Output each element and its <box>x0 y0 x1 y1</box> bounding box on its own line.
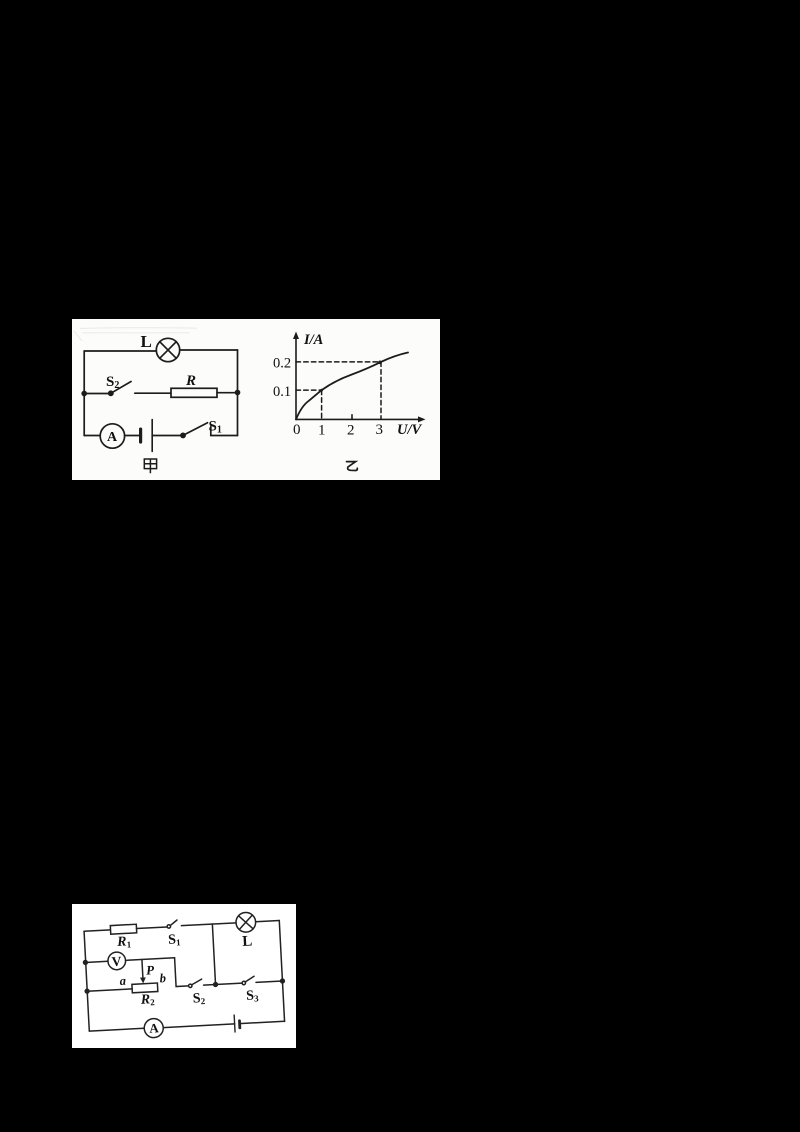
graph axes <box>293 332 426 423</box>
wire left vertical <box>83 351 85 436</box>
svg-text:U/V: U/V <box>397 422 423 438</box>
svg-text:S1: S1 <box>168 932 182 948</box>
node right junction <box>236 391 240 395</box>
wire top left <box>84 350 156 352</box>
node third row left <box>85 989 89 993</box>
label 乙 <box>347 462 358 471</box>
wire middle left <box>84 393 110 395</box>
svg-text:L: L <box>242 934 253 951</box>
lamp L <box>156 338 179 361</box>
switch S3 <box>242 976 255 985</box>
wire S3 to right <box>256 981 282 982</box>
x arrowhead <box>418 416 426 422</box>
node right <box>280 979 284 983</box>
wire voltmeter right <box>126 958 175 961</box>
svg-text:1: 1 <box>318 423 326 439</box>
svg-text:3: 3 <box>376 422 384 438</box>
curve I-U <box>296 353 408 420</box>
svg-text:R1: R1 <box>116 934 132 950</box>
svg-text:0.2: 0.2 <box>273 356 291 372</box>
svg-text:a: a <box>119 974 126 988</box>
voltmeter V <box>108 952 126 970</box>
wire middle gap-right <box>135 392 171 394</box>
svg-text:0: 0 <box>293 422 301 438</box>
svg-text:P: P <box>146 962 156 977</box>
wire battery to switch <box>152 435 183 437</box>
resistor R2 <box>132 983 158 993</box>
node curve dot U=3 <box>378 361 382 365</box>
dashed vertical U=1 <box>321 390 323 419</box>
tick 2 <box>351 415 353 420</box>
wire left vertical <box>84 931 89 1031</box>
svg-text:A: A <box>149 1020 160 1036</box>
switch S1 <box>167 920 178 928</box>
svg-text:0.1: 0.1 <box>273 384 291 400</box>
wire down to S2 <box>175 957 189 986</box>
lamp L <box>236 912 257 933</box>
wire right vertical <box>237 350 239 436</box>
switch S2 <box>109 382 131 396</box>
scan smudge <box>74 328 197 341</box>
battery cell <box>234 1015 240 1032</box>
potentiometer wiper P <box>139 959 146 983</box>
wire node to S3 <box>216 983 243 984</box>
svg-text:R2: R2 <box>139 992 155 1008</box>
wire right vertical <box>279 921 284 1022</box>
svg-text:I/A: I/A <box>303 332 324 348</box>
svg-text:L: L <box>141 332 152 351</box>
node lamp branch bottom <box>214 982 218 986</box>
node curve dot U=1 <box>320 389 323 392</box>
switch S1 <box>181 423 211 438</box>
svg-text:S3: S3 <box>246 988 260 1004</box>
dashed 0.2 <box>296 361 381 363</box>
wire lamp branch vertical <box>212 924 215 984</box>
wire switch to right corner <box>211 435 238 437</box>
wire middle to right <box>217 392 238 394</box>
wire S1 to lamp <box>181 923 236 926</box>
svg-text:2: 2 <box>347 423 355 439</box>
switch S2 <box>188 979 202 987</box>
svg-text:S2: S2 <box>106 374 119 391</box>
svg-text:S1: S1 <box>209 419 222 436</box>
ammeter A <box>100 424 124 448</box>
resistor R <box>171 388 217 397</box>
wire top right <box>180 349 238 351</box>
wire lamp to right corner <box>256 921 280 922</box>
ammeter A <box>144 1018 164 1038</box>
svg-text:A: A <box>107 430 118 445</box>
svg-text:b: b <box>159 971 166 985</box>
battery cell <box>141 420 153 452</box>
wire bottom left <box>89 1028 144 1031</box>
resistor R1 <box>110 924 136 934</box>
wire to voltmeter <box>85 961 108 962</box>
svg-text:S2: S2 <box>192 991 206 1007</box>
node left junction <box>82 392 86 396</box>
wire R1 to S1 <box>137 927 167 929</box>
x axis <box>296 418 422 420</box>
panel second circuit <box>72 904 296 1048</box>
wire battery to right <box>240 1021 285 1023</box>
wire ammeter to battery <box>125 435 141 437</box>
wire ammeter to battery <box>163 1024 234 1028</box>
svg-text:R: R <box>185 373 196 389</box>
panel 甲/乙 figure <box>72 319 440 480</box>
wire S2 to node <box>204 983 216 986</box>
node V row left <box>83 960 87 964</box>
y arrowhead <box>293 332 299 340</box>
y axis <box>295 336 297 420</box>
dashed 0.1 <box>296 389 322 391</box>
wire top to R1 <box>84 930 110 931</box>
wire bottom left <box>84 435 100 437</box>
label 甲 <box>144 459 156 473</box>
wire third row to R2 <box>87 989 132 991</box>
svg-text:V: V <box>111 954 122 970</box>
dashed vertical U=3 <box>380 362 382 420</box>
